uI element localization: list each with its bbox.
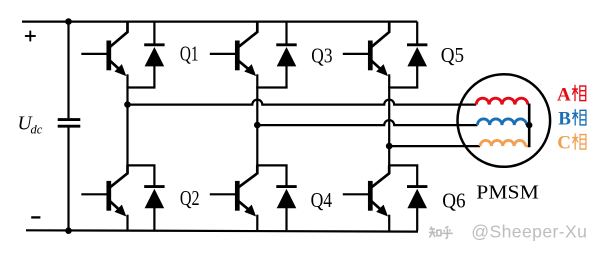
svg-text:@Sheeper-Xu: @Sheeper-Xu xyxy=(471,221,587,241)
svg-text:B: B xyxy=(558,109,571,130)
svg-text:Q4: Q4 xyxy=(311,188,333,212)
svg-text:Q5: Q5 xyxy=(441,43,464,67)
svg-text:Q6: Q6 xyxy=(442,188,465,212)
svg-text:dc: dc xyxy=(31,123,43,137)
svg-text:PMSM: PMSM xyxy=(476,182,539,204)
svg-text:A: A xyxy=(557,84,571,105)
svg-text:Q3: Q3 xyxy=(311,43,332,67)
svg-text:Q1: Q1 xyxy=(180,42,199,66)
svg-text:Q2: Q2 xyxy=(180,186,200,210)
svg-text:C: C xyxy=(557,133,571,154)
